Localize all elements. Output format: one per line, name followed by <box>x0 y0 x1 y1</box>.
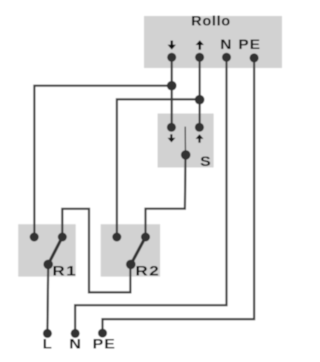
terminal dot R1 top-left <box>30 233 39 242</box>
terminal dot R2 top-right <box>141 233 150 242</box>
arrow down (S terminal label) <box>168 134 176 142</box>
wire: Rollo N terminal down, left, to bottom N terminal (net N) <box>75 57 226 333</box>
arrow down (Rollo terminal label) <box>168 41 176 50</box>
svg-text:S: S <box>200 155 211 170</box>
terminal dot Rollo PE <box>250 53 259 62</box>
svg-text:L: L <box>43 337 53 352</box>
terminal dot Rollo down <box>167 53 176 62</box>
arrow up (S terminal label) <box>196 134 204 143</box>
svg-text:Rollo: Rollo <box>191 13 231 28</box>
wire: S common down, left, to R2 NO contact (net S-R2) <box>146 155 186 237</box>
switch lever R2 (closed to right contact) <box>131 237 146 264</box>
terminal dot N (bottom) <box>71 329 80 338</box>
component box S (switch) <box>158 114 214 168</box>
svg-text:PE: PE <box>238 38 261 53</box>
svg-text:PE: PE <box>93 337 116 352</box>
wire: R1 NO contact to R2 common (net R1-R2) <box>62 209 130 293</box>
terminal dot Rollo N <box>222 53 231 62</box>
terminal dot L (bottom) <box>43 329 52 338</box>
terminal dot S common <box>181 150 191 160</box>
terminal dot R2 top-left <box>112 233 121 242</box>
switch lever R1 (closed to right contact) <box>48 237 62 264</box>
svg-text:N: N <box>69 338 82 352</box>
wire: L terminal up to R1 common (net L) <box>46 264 49 333</box>
terminal dot R2 common <box>126 260 136 270</box>
terminal dot R1 common <box>43 260 53 270</box>
component box R1 (relay 1) <box>18 224 75 276</box>
wire: Rollo up-terminal to S right terminal (net UP) <box>199 57 201 127</box>
wire: Rollo PE terminal down, left, to bottom PE terminal (net PE) <box>103 57 255 333</box>
wire: junction J1 horizontal left to R1 top-left (net DOWN) <box>34 86 171 237</box>
wire: junction J2 horizontal left to R2 top-left (net UP) <box>117 99 200 237</box>
terminal dot S left (down) <box>167 123 176 132</box>
arrow up (Rollo terminal label) <box>196 40 204 50</box>
svg-text:N: N <box>220 38 232 53</box>
switch lever S (mid position, thin) <box>184 127 186 155</box>
terminal dot S right (up) <box>195 123 204 132</box>
terminal dot Rollo up <box>195 53 204 62</box>
junction J1 (net DOWN) <box>167 81 177 91</box>
component box R2 (relay 2) <box>101 224 160 276</box>
svg-text:R2: R2 <box>135 264 160 279</box>
junction J2 (net UP) <box>195 95 205 105</box>
wire: Rollo down-terminal to S left terminal (net DOWN) <box>171 57 173 127</box>
component box Rollo (shutter motor) <box>144 16 282 68</box>
svg-text:R1: R1 <box>52 264 77 279</box>
terminal dot R1 top-right <box>58 233 67 242</box>
terminal dot PE (bottom) <box>98 329 107 338</box>
